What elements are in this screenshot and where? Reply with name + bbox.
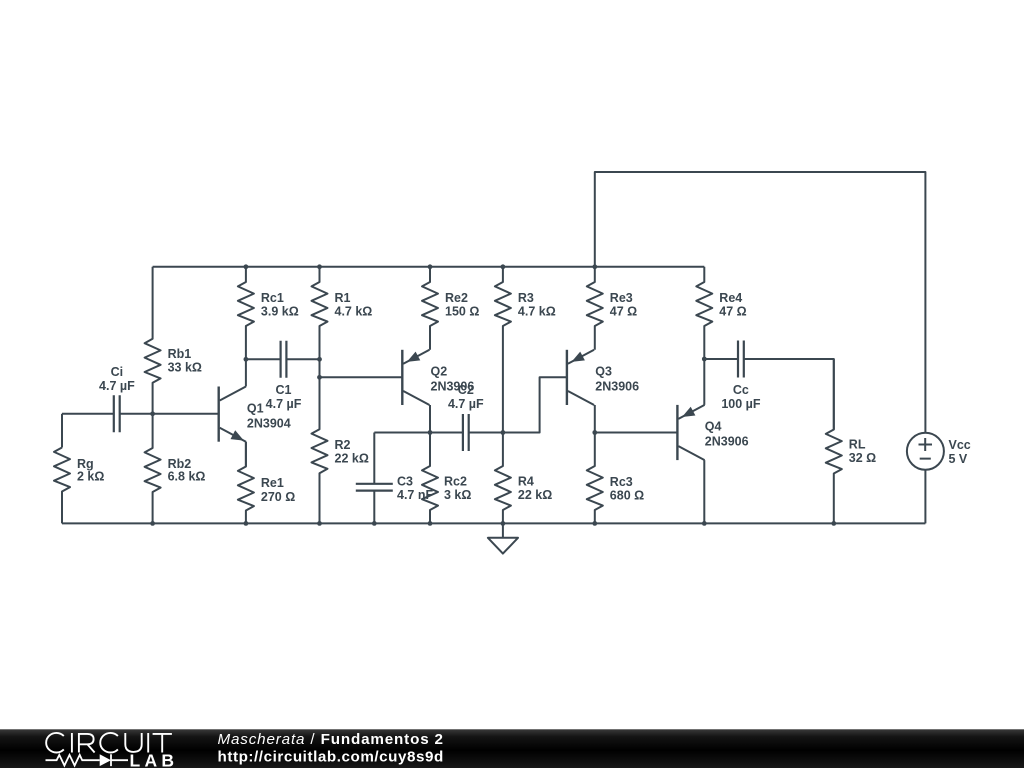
- junction: bottom rail / Q4 collector: [702, 521, 707, 526]
- svg-text:C3: C3: [397, 475, 413, 489]
- svg-text:Re4: Re4: [719, 291, 742, 305]
- junction: Q2 base node: [317, 375, 322, 380]
- junction: Q3 collector / Q4 base node: [592, 430, 597, 435]
- svg-text:5 V: 5 V: [949, 452, 968, 466]
- svg-text:R3: R3: [518, 291, 534, 305]
- svg-text:100 µF: 100 µF: [721, 397, 761, 411]
- svg-text:4.7 µF: 4.7 µF: [448, 397, 484, 411]
- resistor Rb2 6.8 k&#937;: [145, 414, 206, 524]
- junction: bottom rail / R2: [317, 521, 322, 526]
- svg-text:4.7 kΩ: 4.7 kΩ: [335, 305, 373, 319]
- svg-text:Rc3: Rc3: [610, 475, 633, 489]
- ground symbol: [488, 523, 518, 553]
- svg-text:4.7 µF: 4.7 µF: [266, 397, 302, 411]
- resistor Re4 47 &#937;: [696, 267, 746, 359]
- transistor Q2 2N3906 PNP: [402, 350, 474, 433]
- junction: Rb1 / Rb2 / Q1 base node: [150, 411, 155, 416]
- resistor R1 4.7 k&#937;: [312, 267, 373, 360]
- junction: Q2 collector node: [428, 430, 433, 435]
- svg-text:270 Ω: 270 Ω: [261, 490, 295, 504]
- svg-text:Rb1: Rb1: [168, 347, 192, 361]
- capacitor C2 4.7 uF: [448, 383, 484, 451]
- CircuitLab logo wordmark CIRCUIT: [46, 733, 172, 753]
- resistor Re3 47 &#937;: [587, 267, 637, 350]
- svg-text:Mascherata / Fundamentos 2: Mascherata / Fundamentos 2: [218, 731, 444, 748]
- svg-text:680 Ω: 680 Ω: [610, 488, 644, 502]
- svg-text:33 kΩ: 33 kΩ: [168, 361, 202, 375]
- junction: bottom rail / Rb2: [150, 521, 155, 526]
- svg-text:LAB: LAB: [130, 751, 179, 768]
- svg-text:2N3906: 2N3906: [431, 380, 475, 394]
- svg-text:R4: R4: [518, 475, 534, 489]
- junction: C1 / R1 node: [317, 357, 322, 362]
- transistor Q3 2N3906 PNP: [567, 350, 639, 433]
- svg-text:4.7 µF: 4.7 µF: [99, 379, 135, 393]
- svg-text:6.8 kΩ: 6.8 kΩ: [168, 470, 206, 484]
- resistor Re1 270 &#937;: [238, 442, 295, 524]
- junction: top rail / R3: [501, 264, 506, 269]
- resistor RL 32 &#937;: [826, 359, 876, 523]
- junction: bottom rail / Rc2: [428, 521, 433, 526]
- wire: Cc right lead: [744, 359, 834, 430]
- wire: R1-R2 node link: [319, 359, 321, 377]
- junction: bottom rail / ground: [501, 521, 506, 526]
- capacitor C1 4.7 uF: [266, 341, 302, 411]
- wire: Q3 collector to Q4 base: [595, 432, 678, 434]
- wire: top supply rail: [153, 266, 705, 268]
- svg-text:3 kΩ: 3 kΩ: [444, 488, 471, 502]
- wire: C2 right lead: [469, 432, 503, 434]
- svg-text:2N3906: 2N3906: [595, 380, 639, 394]
- svg-text:2N3904: 2N3904: [247, 416, 291, 430]
- junction: top rail / Re3 / feedback: [592, 264, 597, 269]
- junction: top rail / Re2: [428, 264, 433, 269]
- wire: Cc left lead: [704, 358, 737, 360]
- svg-text:Vcc: Vcc: [949, 438, 971, 452]
- svg-text:Re3: Re3: [610, 291, 633, 305]
- wire: Ci to base node: [120, 413, 152, 415]
- resistor Rc1 3.9 k&#937;: [238, 267, 299, 360]
- svg-text:Q4: Q4: [705, 420, 722, 434]
- svg-text:4.7 kΩ: 4.7 kΩ: [518, 305, 556, 319]
- junction: top rail / R1: [317, 264, 322, 269]
- wire: Vcc to bottom rail: [924, 470, 926, 524]
- svg-text:Q2: Q2: [431, 365, 448, 379]
- resistor R3 4.7 k&#937;: [495, 267, 556, 433]
- wire: bottom ground rail: [62, 522, 925, 524]
- transistor Q1 2N3904 NPN: [219, 359, 291, 466]
- junction: bottom rail / RL: [831, 521, 836, 526]
- resistor R4 22 k&#937;: [495, 433, 552, 524]
- svg-text:2 kΩ: 2 kΩ: [77, 470, 104, 484]
- svg-text:150 Ω: 150 Ω: [445, 305, 479, 319]
- resistor R2 22 k&#937;: [312, 377, 369, 523]
- wire: Q3 base route: [503, 377, 567, 432]
- voltage source Vcc 5 V: [907, 433, 971, 470]
- svg-text:Ci: Ci: [111, 365, 124, 379]
- junction: bottom rail / Re1: [244, 521, 249, 526]
- footer bar background: [0, 729, 1024, 768]
- resistor Rb1 33 k&#937;: [145, 267, 202, 414]
- resistor Rg 2 k&#937;: [54, 448, 104, 524]
- wire: C1 left lead: [246, 358, 280, 360]
- svg-text:R1: R1: [335, 291, 351, 305]
- svg-text:Re2: Re2: [445, 291, 468, 305]
- resistor Rc3 680 &#937;: [587, 433, 644, 524]
- CircuitLab logo resistor-diode glyph: [46, 754, 129, 766]
- junction: top rail / Rc1: [244, 264, 249, 269]
- wire: feedback link top: [595, 172, 926, 433]
- svg-text:47 Ω: 47 Ω: [719, 305, 746, 319]
- svg-text:3.9 kΩ: 3.9 kΩ: [261, 305, 299, 319]
- svg-text:RL: RL: [849, 438, 866, 452]
- svg-text:R2: R2: [335, 438, 351, 452]
- svg-text:Q1: Q1: [247, 401, 264, 415]
- wire: C3 top link: [373, 433, 375, 484]
- wire: C2 left lead: [374, 432, 462, 434]
- junction: bottom rail / C3: [372, 521, 377, 526]
- wire: C3 bottom lead: [373, 491, 375, 524]
- capacitor Cc 100 uF: [721, 341, 761, 412]
- svg-text:http://circuitlab.com/cuy8s9d: http://circuitlab.com/cuy8s9d: [218, 749, 444, 766]
- svg-text:2N3906: 2N3906: [705, 435, 749, 449]
- wire: Q2 base lead: [320, 376, 403, 378]
- transistor Q4 2N3906 PNP: [677, 359, 748, 523]
- svg-text:4.7 nF: 4.7 nF: [397, 488, 433, 502]
- svg-text:Rc1: Rc1: [261, 291, 284, 305]
- junction: Q1 collector node: [244, 357, 249, 362]
- svg-text:Rc2: Rc2: [444, 475, 467, 489]
- wire: Q1 base lead: [153, 413, 219, 415]
- svg-text:Q3: Q3: [595, 365, 612, 379]
- wire: C1 right lead: [287, 358, 320, 360]
- svg-text:22 kΩ: 22 kΩ: [335, 451, 369, 465]
- resistor Re2 150 &#937;: [422, 267, 479, 350]
- resistor Rc2 3 k&#937;: [422, 433, 471, 524]
- junction: C2 / R3 / R4 node: [501, 430, 506, 435]
- svg-text:Cc: Cc: [733, 383, 749, 397]
- svg-text:47 Ω: 47 Ω: [610, 305, 637, 319]
- capacitor Ci 4.7 uF: [99, 365, 135, 432]
- wire: Rg top lead: [61, 414, 63, 448]
- svg-text:22 kΩ: 22 kΩ: [518, 488, 552, 502]
- svg-text:32 Ω: 32 Ω: [849, 451, 876, 465]
- svg-text:C1: C1: [276, 383, 292, 397]
- junction: bottom rail / Rc3: [592, 521, 597, 526]
- wire: input node to Ci: [62, 413, 113, 415]
- junction: Re4 / Q4 emitter / Cc node: [702, 357, 707, 362]
- capacitor C3 4.7 nF: [356, 475, 434, 502]
- svg-text:Re1: Re1: [261, 476, 284, 490]
